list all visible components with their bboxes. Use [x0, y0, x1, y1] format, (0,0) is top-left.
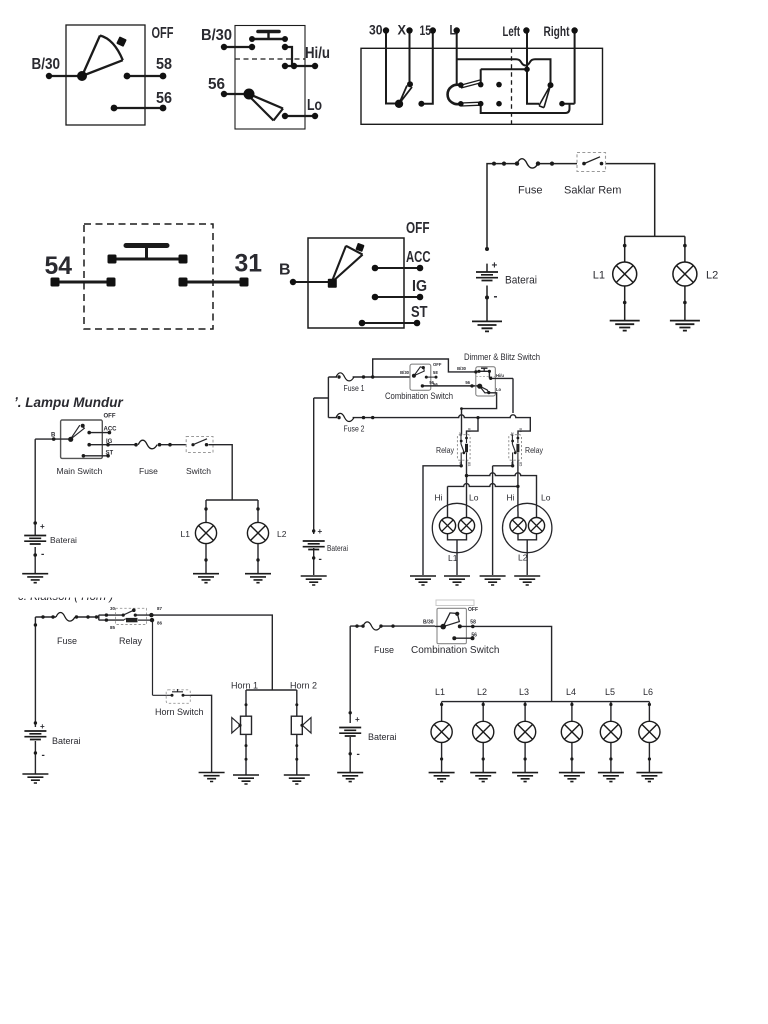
svg-text:Right: Right — [544, 24, 570, 39]
svg-text:Horn Switch: Horn Switch — [155, 707, 204, 717]
svg-text:Baterai: Baterai — [368, 732, 397, 742]
svg-text:-: - — [41, 549, 44, 560]
svg-text:Fuse: Fuse — [139, 466, 158, 476]
svg-text:Hi: Hi — [507, 493, 515, 503]
svg-text:L1: L1 — [435, 687, 445, 697]
svg-text:56: 56 — [156, 90, 172, 107]
svg-text:Saklar Rem: Saklar Rem — [564, 185, 621, 197]
svg-text:L5: L5 — [605, 687, 615, 697]
svg-text:85: 85 — [467, 462, 471, 466]
svg-text:L2: L2 — [518, 553, 528, 563]
svg-text:B: B — [51, 433, 56, 439]
svg-text:Horn 1: Horn 1 — [231, 681, 258, 691]
svg-text:Combination Switch: Combination Switch — [385, 391, 453, 402]
svg-text:Fuse: Fuse — [57, 636, 77, 646]
svg-text:L2: L2 — [706, 270, 718, 282]
svg-text:B/30: B/30 — [201, 27, 232, 44]
svg-text:ACC: ACC — [406, 249, 431, 266]
svg-text:31: 31 — [235, 250, 263, 278]
svg-text:Dimmer & Blitz Switch: Dimmer & Blitz Switch — [464, 352, 540, 363]
svg-text:Main Switch: Main Switch — [57, 466, 103, 476]
svg-text:Combination Switch: Combination Switch — [411, 645, 499, 656]
svg-text:B/30: B/30 — [423, 620, 434, 626]
svg-text:Lo: Lo — [541, 493, 551, 503]
svg-text:X: X — [398, 23, 407, 38]
svg-text:Fuse: Fuse — [374, 645, 394, 655]
svg-text:30: 30 — [459, 432, 463, 436]
svg-text:Baterai: Baterai — [327, 543, 348, 553]
svg-text:86: 86 — [518, 428, 522, 432]
svg-text:+: + — [318, 527, 323, 536]
svg-text:OFF: OFF — [433, 362, 442, 367]
svg-text:54: 54 — [45, 252, 73, 280]
svg-text:86: 86 — [157, 621, 163, 626]
svg-text:56: 56 — [471, 633, 477, 639]
svg-text:Fuse 2: Fuse 2 — [344, 424, 365, 434]
svg-text:Left: Left — [503, 24, 521, 39]
svg-text:+: + — [40, 722, 45, 731]
svg-text:Switch: Switch — [186, 466, 211, 476]
svg-text:Baterai: Baterai — [505, 275, 537, 287]
svg-text:ACC: ACC — [104, 427, 118, 433]
svg-text:86: 86 — [467, 428, 471, 432]
svg-text:58: 58 — [433, 370, 438, 375]
svg-text:IG: IG — [106, 439, 113, 445]
svg-text:Hi: Hi — [435, 493, 443, 503]
svg-text:Horn 2: Horn 2 — [290, 681, 317, 691]
svg-text:85: 85 — [110, 625, 116, 630]
svg-text:Relay: Relay — [436, 445, 455, 455]
svg-text:L1: L1 — [448, 553, 458, 563]
svg-text:Lo: Lo — [496, 387, 502, 392]
svg-text:Fuse: Fuse — [518, 185, 542, 197]
svg-text:Baterai: Baterai — [50, 535, 77, 545]
svg-text:56: 56 — [465, 380, 470, 385]
svg-text:OFF: OFF — [468, 607, 478, 613]
svg-text:85: 85 — [518, 462, 522, 466]
svg-text:L1: L1 — [593, 270, 605, 282]
svg-text:87: 87 — [157, 606, 163, 611]
svg-text:OFF: OFF — [406, 220, 430, 237]
svg-text:B/30: B/30 — [32, 56, 61, 73]
svg-text:L4: L4 — [566, 687, 576, 697]
svg-text:B/30: B/30 — [457, 366, 467, 371]
svg-text:56: 56 — [433, 382, 438, 387]
svg-text:OFF: OFF — [104, 414, 116, 420]
svg-text:Hi/u: Hi/u — [305, 45, 330, 62]
svg-text:30: 30 — [369, 23, 383, 38]
svg-text:L3: L3 — [519, 687, 529, 697]
svg-text:+: + — [492, 261, 498, 272]
svg-text:Baterai: Baterai — [52, 736, 81, 746]
svg-text:ST: ST — [106, 451, 114, 457]
svg-text:58: 58 — [156, 56, 172, 73]
svg-text:56: 56 — [208, 76, 225, 93]
svg-text:Relay: Relay — [119, 636, 143, 646]
svg-text:B/30: B/30 — [400, 370, 410, 375]
svg-text:ʼ. Lampu Mundur: ʼ. Lampu Mundur — [14, 395, 123, 410]
svg-text:87: 87 — [510, 462, 514, 466]
svg-text:Fuse 1: Fuse 1 — [344, 383, 365, 393]
svg-text:15: 15 — [420, 23, 432, 38]
svg-text:B: B — [279, 262, 291, 279]
svg-text:L6: L6 — [643, 687, 653, 697]
svg-text:Lo: Lo — [307, 97, 322, 114]
svg-text:OFF: OFF — [152, 25, 174, 42]
svg-text:L2: L2 — [277, 529, 287, 539]
svg-text:-: - — [319, 554, 322, 565]
svg-text:ST: ST — [411, 304, 428, 321]
svg-text:-: - — [494, 289, 498, 303]
svg-text:L2: L2 — [477, 687, 487, 697]
svg-text:Lo: Lo — [469, 493, 479, 503]
svg-text:87: 87 — [459, 462, 463, 466]
svg-text:30: 30 — [110, 606, 116, 611]
svg-text:-: - — [357, 749, 360, 760]
svg-text:+: + — [355, 715, 360, 724]
svg-text:30: 30 — [510, 432, 514, 436]
svg-text:+: + — [40, 522, 45, 531]
svg-text:L1: L1 — [181, 529, 191, 539]
svg-text:Hi/u: Hi/u — [496, 373, 504, 378]
svg-text:L: L — [450, 23, 457, 38]
svg-text:Relay: Relay — [525, 445, 544, 455]
svg-text:IG: IG — [412, 278, 427, 295]
svg-text:58: 58 — [470, 620, 476, 626]
svg-text:-: - — [42, 750, 45, 761]
